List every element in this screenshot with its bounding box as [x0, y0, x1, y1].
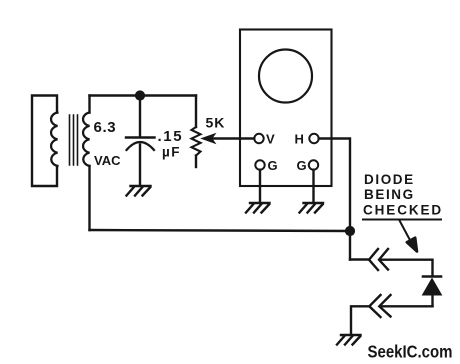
- junction node at H rail: [345, 226, 355, 236]
- oscilloscope box U1: [240, 30, 332, 187]
- svg-text:BEING: BEING: [364, 187, 415, 202]
- diode D1 lead: [431, 295, 433, 306]
- svg-text:SeekIC.com: SeekIC.com: [368, 342, 453, 362]
- wire top clip to diode: [382, 260, 433, 275]
- svg-text:.15: .15: [158, 128, 184, 145]
- svg-text:6.3: 6.3: [94, 119, 117, 136]
- wire secondary bottom lead: [88, 166, 90, 230]
- transformer T1 primary winding: [51, 113, 57, 167]
- svg-text:V: V: [266, 132, 275, 147]
- transformer T1 secondary winding: [83, 113, 89, 167]
- svg-text:H: H: [295, 132, 304, 147]
- wire H terminal to node: [319, 139, 350, 260]
- oscilloscope CRT screen: [259, 50, 312, 103]
- diode D1 cathode bar: [423, 275, 441, 278]
- ground below G right: [300, 203, 324, 213]
- svg-text:µF: µF: [162, 145, 181, 160]
- ground below G left: [246, 203, 270, 213]
- capacitor C1 curved plate: [127, 142, 155, 150]
- terminal V circle: [254, 134, 263, 143]
- wire node to top clip: [350, 258, 368, 260]
- clip jaws top (double chevron): [369, 249, 388, 270]
- svg-text:G: G: [297, 158, 307, 173]
- terminal G left circle: [255, 160, 264, 169]
- wire G right drop: [312, 170, 314, 202]
- pointer arrowhead: [407, 238, 417, 252]
- capacitor C1 top lead: [139, 96, 141, 136]
- capacitor C1 top plate: [126, 136, 155, 138]
- transformer T1 primary loop wire: [32, 96, 57, 187]
- label underline: [363, 219, 441, 221]
- svg-text:VAC: VAC: [94, 153, 121, 168]
- wire G left drop: [259, 170, 261, 202]
- capacitor C1 bottom lead: [139, 145, 141, 185]
- wire bottom rail: [90, 230, 351, 231]
- clip jaws bottom (double chevron): [369, 295, 390, 317]
- ground below C1: [127, 186, 151, 196]
- wire bottom clip to ground: [351, 306, 369, 333]
- potentiometer R1 zigzag: [192, 127, 201, 156]
- potentiometer R1 top lead: [195, 96, 197, 128]
- wire top rail: [90, 94, 197, 96]
- wiper arrowhead: [203, 134, 215, 142]
- svg-text:CHECKED: CHECKED: [363, 203, 443, 218]
- svg-text:5K: 5K: [206, 115, 226, 131]
- wire secondary top lead: [88, 96, 90, 113]
- wire wiper to V terminal: [212, 137, 254, 139]
- svg-text:G: G: [268, 158, 278, 173]
- potentiometer R1 bottom stub: [195, 156, 197, 168]
- ground bottom right: [337, 335, 361, 345]
- diode D1 triangle: [423, 279, 442, 296]
- pointer arrow line: [400, 221, 412, 243]
- junction node at capacitor: [135, 90, 145, 100]
- terminal G right circle: [309, 160, 318, 169]
- svg-text:DIODE: DIODE: [364, 172, 415, 187]
- transformer T1 core: [70, 115, 78, 165]
- wire diode to bottom clip: [382, 305, 433, 307]
- terminal H circle: [309, 134, 318, 143]
